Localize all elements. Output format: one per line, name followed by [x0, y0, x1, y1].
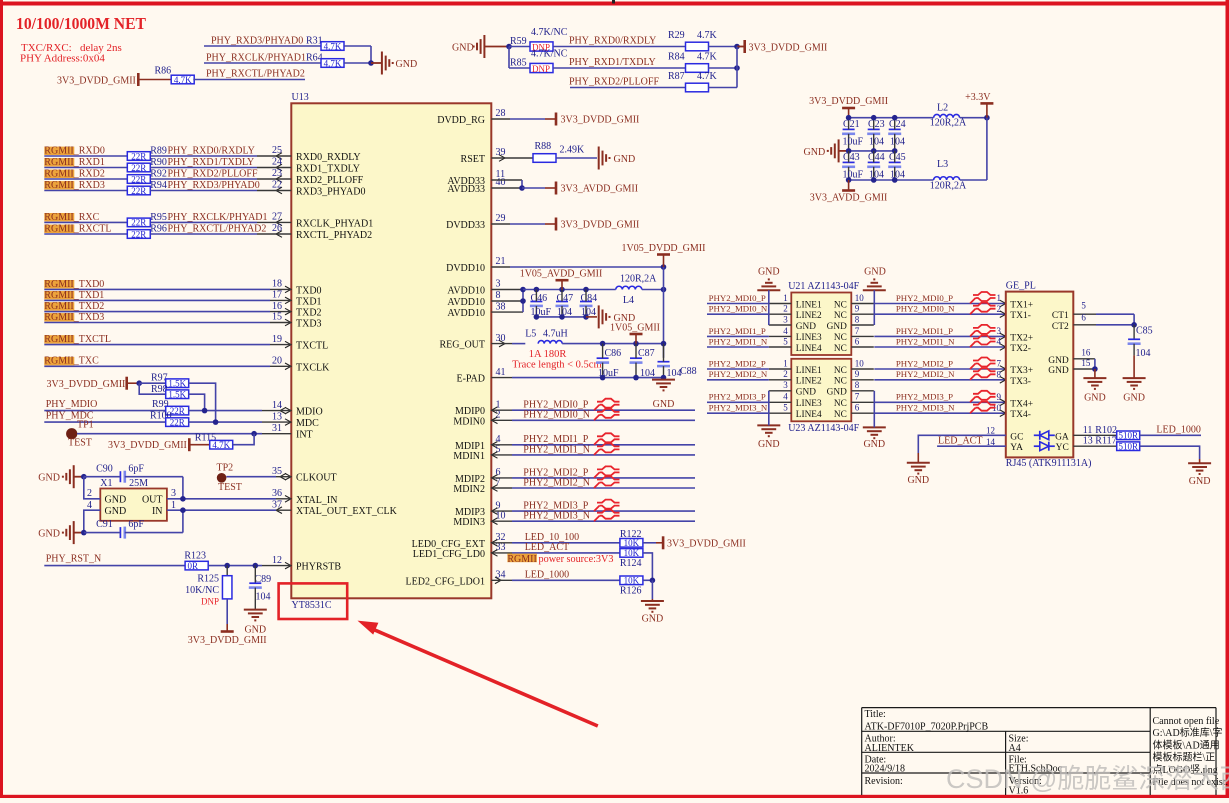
- svg-text:3V3_DVDD_GMII: 3V3_DVDD_GMII: [47, 379, 126, 390]
- svg-text:RGMII_TXC: RGMII_TXC: [44, 356, 99, 367]
- svg-text:5: 5: [1081, 301, 1086, 311]
- net PHY2_MDI0_P to RJ45: [874, 303, 1006, 305]
- svg-text:PHYRSTB: PHYRSTB: [296, 562, 341, 573]
- wire L3 to +3.3V: [960, 179, 987, 181]
- wire C91 to IN: [182, 510, 184, 532]
- svg-text:TP2: TP2: [217, 463, 234, 474]
- svg-text:104: 104: [890, 137, 905, 148]
- svg-text:RXD1_TXDLY: RXD1_TXDLY: [296, 164, 360, 175]
- svg-text:TXD0: TXD0: [296, 285, 322, 296]
- net PHY2_MDI3_N into transformer: [707, 412, 769, 414]
- svg-text:0R: 0R: [188, 561, 199, 571]
- svg-text:39: 39: [496, 147, 506, 158]
- svg-text:ATK-DF7010P_7020P.PrjPCB: ATK-DF7010P_7020P.PrjPCB: [865, 722, 989, 733]
- svg-text:21: 21: [496, 256, 506, 267]
- diff pair directive: [594, 477, 620, 489]
- net LED_ACT resistor R124: [491, 552, 512, 554]
- svg-text:2: 2: [997, 304, 1002, 314]
- svg-text:R59: R59: [510, 36, 527, 47]
- svg-text:7: 7: [997, 359, 1002, 369]
- svg-text:6pF: 6pF: [128, 519, 144, 530]
- diff pair directive: [594, 466, 620, 478]
- wire R64 to GND: [344, 62, 371, 64]
- svg-text:41: 41: [496, 367, 506, 378]
- op-amp U13 YT8531C body: [291, 103, 491, 598]
- svg-text:XTAL_OUT_EXT_CLK: XTAL_OUT_EXT_CLK: [296, 506, 398, 517]
- svg-text:power source:3V3: power source:3V3: [539, 554, 614, 565]
- svg-text:GND: GND: [452, 43, 474, 54]
- svg-text:9: 9: [855, 304, 860, 314]
- svg-text:2.49K: 2.49K: [560, 145, 586, 156]
- svg-text:10: 10: [496, 510, 506, 521]
- svg-text:REG_OUT: REG_OUT: [439, 340, 485, 351]
- svg-text:TXD1: TXD1: [296, 296, 322, 307]
- power flag +3.3V: [980, 102, 993, 105]
- svg-text:NC: NC: [834, 300, 847, 310]
- svg-text:AVDD10: AVDD10: [447, 308, 485, 319]
- net PHY2_MDI0_P into transformer: [707, 303, 769, 305]
- svg-text:4.7K/NC: 4.7K/NC: [531, 27, 568, 38]
- svg-text:22R: 22R: [131, 163, 146, 173]
- svg-text:GND: GND: [907, 475, 929, 486]
- svg-text:PHY_RXD1/TXDLY: PHY_RXD1/TXDLY: [168, 157, 255, 168]
- svg-text:PHY_RXD3/PHYAD0: PHY_RXD3/PHYAD0: [168, 180, 260, 191]
- net PHY2_MDI0_N into transformer: [707, 313, 769, 315]
- svg-text:PHY_RXD1/TXDLY: PHY_RXD1/TXDLY: [569, 57, 656, 68]
- svg-text:4: 4: [783, 392, 788, 402]
- svg-text:PHY2_MDI2_N: PHY2_MDI2_N: [523, 477, 590, 488]
- svg-text:PHY2_MDI3_P: PHY2_MDI3_P: [709, 392, 766, 402]
- svg-text:U21 AZ1143-04F: U21 AZ1143-04F: [788, 281, 859, 292]
- svg-text:CSDN @脆脆鲨深潜大西洋: CSDN @脆脆鲨深潜大西洋: [946, 764, 1229, 794]
- svg-text:3V3_DVDD_GMII: 3V3_DVDD_GMII: [749, 43, 828, 54]
- svg-text:104: 104: [1136, 348, 1151, 359]
- ground RJ45 shield: [1094, 369, 1096, 378]
- net PHY2_MDI1_P to RJ45: [874, 335, 1006, 337]
- wire caps bottom rail: [536, 316, 586, 318]
- crystal X1 body: [100, 489, 167, 521]
- resistor R95 net PHY_RXCLK/PHYAD1: [44, 213, 74, 221]
- net PHY2_MDI3_N from U13: [491, 520, 512, 522]
- svg-text:R86: R86: [155, 66, 172, 77]
- svg-text:TXCTL: TXCTL: [296, 341, 328, 352]
- svg-text:23: 23: [272, 168, 282, 179]
- svg-text:120R,2A: 120R,2A: [620, 274, 657, 285]
- svg-text:R92: R92: [150, 168, 167, 179]
- net PHY2_MDI1_N to RJ45: [874, 346, 1006, 348]
- svg-text:4.7K: 4.7K: [697, 52, 718, 63]
- svg-text:MDIN0: MDIN0: [453, 416, 485, 427]
- svg-text:6pF: 6pF: [128, 463, 144, 474]
- svg-text:体模板\AD通用: 体模板\AD通用: [1153, 738, 1220, 751]
- svg-text:4.7uH: 4.7uH: [543, 329, 568, 340]
- svg-text:14: 14: [272, 400, 282, 411]
- svg-text:3V3_AVDD_GMII: 3V3_AVDD_GMII: [561, 184, 639, 195]
- wire DVDD_RG pin28 to 3V3 flag: [491, 118, 510, 120]
- wire L5 to bus: [562, 343, 663, 345]
- svg-text:C91: C91: [96, 519, 113, 530]
- svg-text:LED_1000: LED_1000: [1156, 424, 1200, 435]
- diff pair directive: [970, 358, 996, 370]
- diff pair directive: [970, 292, 996, 304]
- svg-text:GND: GND: [758, 267, 780, 278]
- svg-text:7: 7: [855, 326, 860, 336]
- svg-text:4.7K: 4.7K: [324, 41, 342, 51]
- svg-text:PHY2_MDI3_N: PHY2_MDI3_N: [896, 403, 955, 413]
- capacitor C88: [658, 361, 670, 363]
- net PHY_RXD2/PLLOFF: [570, 87, 686, 89]
- diff pair directive: [594, 409, 620, 421]
- svg-text:LINE1: LINE1: [796, 366, 822, 376]
- svg-text:GND: GND: [827, 322, 847, 332]
- svg-text:10K: 10K: [624, 548, 640, 558]
- svg-text:MDIN3: MDIN3: [453, 517, 485, 528]
- wire R87 to bus: [708, 87, 737, 89]
- wire REG_OUT pin30: [491, 343, 512, 345]
- resistor R89 net PHY_RXD0/RXDLY: [44, 147, 74, 155]
- svg-text:GND: GND: [614, 154, 636, 165]
- wire C90 to OUT: [182, 477, 184, 499]
- svg-text:DVDD33: DVDD33: [446, 220, 485, 231]
- svg-text:LINE1: LINE1: [796, 300, 822, 310]
- wire 3V3 rail top: [849, 117, 934, 119]
- svg-text:3V3_DVDD_GMII: 3V3_DVDD_GMII: [57, 76, 136, 87]
- svg-text:18: 18: [272, 279, 282, 290]
- svg-text:PHY2_MDI3_N: PHY2_MDI3_N: [523, 511, 590, 522]
- svg-text:R64: R64: [306, 52, 323, 63]
- svg-text:19: 19: [272, 334, 282, 345]
- svg-text:4.7K: 4.7K: [697, 30, 718, 41]
- resistor R90 net PHY_RXD1/TXDLY: [44, 158, 74, 166]
- svg-text:25M: 25M: [129, 478, 148, 489]
- svg-text:DVDD10: DVDD10: [446, 263, 485, 274]
- svg-text:C86: C86: [605, 348, 622, 359]
- svg-text:1A 180R: 1A 180R: [529, 349, 567, 360]
- svg-text:LED2_CFG_LDO1: LED2_CFG_LDO1: [406, 576, 485, 587]
- svg-text:4.7K: 4.7K: [174, 75, 192, 85]
- svg-text:AVDD10: AVDD10: [447, 297, 485, 308]
- net PHY2_MDI2_N into transformer: [707, 379, 769, 381]
- svg-text:GND: GND: [758, 439, 780, 450]
- svg-text:10K/NC: 10K/NC: [185, 585, 219, 596]
- svg-text:34: 34: [496, 570, 506, 581]
- wire U23 pin3 to lower gnd: [768, 391, 770, 426]
- svg-text:PHY2_MDI2_P: PHY2_MDI2_P: [896, 358, 953, 368]
- svg-text:PHY2_MDI1_P: PHY2_MDI1_P: [896, 326, 953, 336]
- net PHY2_MDI1_P into transformer: [707, 335, 769, 337]
- svg-text:2: 2: [496, 410, 501, 421]
- svg-text:3: 3: [997, 326, 1002, 336]
- red annotation arrow: [358, 621, 379, 635]
- net PHY2_MDI0_N from U13: [491, 419, 512, 421]
- svg-text:1: 1: [783, 293, 788, 303]
- svg-text:3: 3: [783, 380, 788, 390]
- svg-text:15: 15: [1081, 358, 1091, 368]
- svg-text:CT1: CT1: [1052, 311, 1069, 321]
- wire R125 to 3V3 flag: [226, 599, 228, 624]
- svg-text:AVDD33: AVDD33: [447, 184, 485, 195]
- svg-text:9: 9: [997, 392, 1002, 402]
- svg-text:1.5K: 1.5K: [168, 379, 186, 389]
- svg-text:40: 40: [496, 177, 506, 188]
- ground caps rail: [599, 305, 610, 328]
- svg-text:4.7K: 4.7K: [697, 71, 718, 82]
- net PHY2_MDI0_P from U13: [491, 409, 512, 411]
- svg-text:GND: GND: [1084, 392, 1106, 403]
- svg-text:10uF: 10uF: [843, 137, 864, 148]
- wire U21 pin8 to upper gnd: [873, 290, 875, 325]
- svg-text:1V05_GMII: 1V05_GMII: [610, 323, 660, 334]
- svg-text:GND: GND: [396, 59, 418, 70]
- svg-text:GC: GC: [1010, 432, 1023, 442]
- svg-text:TX2-: TX2-: [1010, 344, 1031, 354]
- svg-text:37: 37: [272, 499, 282, 510]
- svg-text:TX3-: TX3-: [1010, 377, 1031, 387]
- svg-text:X1: X1: [100, 478, 112, 489]
- svg-text:Trace length < 0.5cm: Trace length < 0.5cm: [512, 359, 602, 370]
- svg-text:R94: R94: [150, 180, 167, 191]
- svg-text:C85: C85: [1136, 325, 1153, 336]
- svg-text:28: 28: [496, 108, 506, 119]
- svg-text:R95: R95: [150, 212, 167, 223]
- diff pair directive: [970, 325, 996, 337]
- net PHY2_MDI1_N into transformer: [707, 346, 769, 348]
- svg-text:L4: L4: [623, 295, 634, 306]
- svg-text:PHY_RXD2/PLLOFF: PHY_RXD2/PLLOFF: [168, 168, 258, 179]
- svg-text:Cannot open file: Cannot open file: [1153, 716, 1220, 727]
- svg-text:GND: GND: [244, 625, 266, 636]
- svg-text:5: 5: [783, 403, 788, 413]
- svg-text:20: 20: [272, 356, 282, 367]
- svg-text:GND: GND: [863, 439, 885, 450]
- svg-text:R87: R87: [668, 71, 685, 82]
- svg-text:104: 104: [256, 591, 271, 602]
- wire DVDD33 pin29 to 3V3 flag: [491, 223, 510, 225]
- svg-text:3: 3: [783, 314, 788, 324]
- net PHY2_MDI1_P from U13: [491, 444, 512, 446]
- svg-text:2: 2: [783, 369, 788, 379]
- svg-text:R117: R117: [1095, 436, 1116, 447]
- svg-text:4.7K: 4.7K: [324, 58, 342, 68]
- svg-text:TX4+: TX4+: [1010, 399, 1033, 409]
- diff pair directive: [594, 399, 620, 411]
- diff pair directive: [970, 402, 996, 414]
- svg-text:GND: GND: [1123, 392, 1145, 403]
- svg-text:模板标题栏\正: 模板标题栏\正: [1153, 751, 1216, 764]
- svg-text:29: 29: [496, 213, 506, 224]
- svg-text:22R: 22R: [131, 218, 146, 228]
- svg-text:LINE2: LINE2: [796, 377, 822, 387]
- svg-text:RGMII_RXD1: RGMII_RXD1: [44, 157, 105, 168]
- wire IN to XTAL_OUT: [167, 509, 276, 511]
- svg-text:10K: 10K: [624, 576, 640, 586]
- svg-text:1.5K: 1.5K: [168, 390, 186, 400]
- svg-text:30: 30: [496, 333, 506, 344]
- svg-text:PHY2_MDI1_N: PHY2_MDI1_N: [896, 336, 955, 346]
- svg-text:R126: R126: [620, 585, 642, 596]
- ground under C85: [1133, 355, 1135, 378]
- svg-text:C90: C90: [96, 463, 113, 474]
- svg-text:CT2: CT2: [1052, 322, 1069, 332]
- svg-text:TXD3: TXD3: [296, 319, 322, 330]
- wire bottom rail: [849, 179, 934, 181]
- svg-text:MDIO: MDIO: [296, 407, 323, 418]
- junction: [506, 44, 512, 50]
- svg-text:RGMII_RXC: RGMII_RXC: [44, 212, 99, 223]
- net PHY2_MDI0_N to RJ45: [874, 313, 1006, 315]
- svg-text:R124: R124: [620, 558, 642, 569]
- svg-text:2024/9/18: 2024/9/18: [865, 764, 906, 775]
- svg-text:RGMII_RXD3: RGMII_RXD3: [44, 180, 105, 191]
- svg-text:RXD3_PHYAD0: RXD3_PHYAD0: [296, 187, 365, 198]
- svg-text:GND: GND: [105, 506, 127, 517]
- svg-text:6: 6: [855, 403, 860, 413]
- diff pair directive: [970, 336, 996, 348]
- svg-text:10uF: 10uF: [843, 169, 864, 180]
- svg-text:DNP: DNP: [532, 64, 550, 74]
- svg-text:LINE4: LINE4: [796, 410, 822, 420]
- svg-text:120R,2A: 120R,2A: [930, 180, 967, 191]
- svg-text:2: 2: [87, 488, 92, 499]
- svg-text:PHY2_MDI0_N: PHY2_MDI0_N: [896, 304, 955, 314]
- wire R117 to ground: [1139, 446, 1200, 459]
- svg-text:R96: R96: [150, 223, 167, 234]
- svg-text:6: 6: [855, 336, 860, 346]
- svg-text:PHY2_MDI2_N: PHY2_MDI2_N: [896, 369, 955, 379]
- svg-text:RXD0_RXDLY: RXD0_RXDLY: [296, 152, 361, 163]
- svg-text:PHY2_MDI3_N: PHY2_MDI3_N: [709, 403, 768, 413]
- svg-text:AVDD10: AVDD10: [447, 286, 485, 297]
- svg-text:RGMII_TXD0: RGMII_TXD0: [44, 279, 104, 290]
- svg-text:YC: YC: [1056, 443, 1069, 453]
- net PHY2_MDI2_P from U13: [491, 477, 512, 479]
- svg-text:GND: GND: [1189, 476, 1211, 487]
- svg-text:RGMII_TXD1: RGMII_TXD1: [44, 290, 104, 301]
- svg-text:35: 35: [272, 466, 282, 477]
- resistor R98: [139, 383, 166, 394]
- svg-text:INT: INT: [296, 430, 313, 441]
- svg-text:RGMII_RXD2: RGMII_RXD2: [44, 168, 105, 179]
- diff pair directive: [970, 368, 996, 380]
- svg-text:Revision:: Revision:: [865, 776, 903, 787]
- svg-text:PHY2_MDI0_P: PHY2_MDI0_P: [709, 293, 766, 303]
- resistor R97: [139, 382, 166, 384]
- svg-text:12: 12: [986, 426, 995, 436]
- wire R29 to 3V3: [708, 46, 737, 48]
- svg-text:GND: GND: [864, 267, 886, 278]
- transformer U21 body: [791, 293, 851, 356]
- svg-text:22: 22: [272, 180, 282, 191]
- svg-text:PHY Address:0x04: PHY Address:0x04: [20, 53, 105, 65]
- svg-text:YT8531C: YT8531C: [292, 600, 332, 611]
- net PHY2_MDI2_N to RJ45: [874, 379, 1006, 381]
- svg-text:LED1_CFG_LD0: LED1_CFG_LD0: [413, 549, 485, 560]
- wire GND pin2: [84, 477, 101, 499]
- svg-text:5: 5: [496, 444, 501, 455]
- svg-text:4: 4: [87, 500, 92, 511]
- junction: [734, 65, 740, 71]
- net RGMII_TXD3: [44, 313, 74, 321]
- diff pair directive: [594, 433, 620, 445]
- svg-text:A4: A4: [1009, 743, 1021, 754]
- svg-text:R102: R102: [1095, 425, 1117, 436]
- svg-text:3V3_DVDD_GMII: 3V3_DVDD_GMII: [667, 539, 746, 550]
- svg-text:22R: 22R: [131, 186, 146, 196]
- led diode GC-GA: [1034, 434, 1040, 436]
- svg-text:6: 6: [1081, 312, 1086, 322]
- net RGMII_TXC: [44, 357, 74, 365]
- svg-text:10K: 10K: [624, 538, 640, 548]
- wire DVDD10 pin21: [491, 266, 510, 268]
- svg-text:YA: YA: [1010, 443, 1023, 453]
- svg-text:DNP: DNP: [201, 596, 219, 606]
- ground under C89: [244, 610, 267, 621]
- wire OUT to XTAL_IN: [167, 498, 276, 500]
- diff pair directive: [594, 510, 620, 522]
- svg-text:XTAL_IN: XTAL_IN: [296, 495, 337, 506]
- wire U23 pin8 to lower gnd: [873, 391, 875, 428]
- svg-text:U23 AZ1143-04F: U23 AZ1143-04F: [788, 423, 859, 434]
- net PHY_RXD0/RXDLY: [553, 46, 686, 48]
- svg-text:GND: GND: [1048, 366, 1069, 376]
- svg-text:31: 31: [272, 423, 282, 434]
- svg-text:TEST: TEST: [218, 482, 242, 493]
- svg-text:TX4-: TX4-: [1010, 410, 1031, 420]
- svg-text:8: 8: [855, 314, 860, 324]
- wire AVDD10 pins 3 8 38: [491, 289, 523, 291]
- junctions top rail: [846, 115, 852, 121]
- svg-text:MDIN1: MDIN1: [453, 451, 485, 462]
- svg-text:TP1: TP1: [77, 419, 94, 430]
- net RGMII_TXD0: [44, 280, 74, 288]
- net PHY2_MDI2_N from U13: [491, 487, 512, 489]
- svg-text:C87: C87: [638, 348, 655, 359]
- ground below U23 right: [863, 427, 886, 438]
- svg-text:L5: L5: [525, 329, 536, 340]
- resistor R88 on RSET: [491, 157, 533, 159]
- svg-text:10/100/1000M NET: 10/100/1000M NET: [16, 14, 147, 33]
- net LED_1000 resistor R126: [491, 579, 512, 581]
- net PHY2_MDI1_N from U13: [491, 454, 512, 456]
- svg-text:PHY2_MDI0_N: PHY2_MDI0_N: [709, 304, 768, 314]
- svg-text:LINE2: LINE2: [796, 311, 822, 321]
- svg-text:4.7K/NC: 4.7K/NC: [531, 49, 568, 60]
- net PHY2_MDI2_P into transformer: [707, 368, 769, 370]
- net PHY_RXD3/PHYAD0: [204, 45, 321, 47]
- svg-text:PHY_RXD0/RXDLY: PHY_RXD0/RXDLY: [569, 36, 656, 47]
- svg-text:RSET: RSET: [461, 154, 485, 165]
- svg-text:PHY2_MDI1_N: PHY2_MDI1_N: [523, 444, 590, 455]
- wire vertical 3V3 bus: [736, 47, 738, 88]
- svg-text:27: 27: [272, 212, 282, 223]
- net RGMII_TXD2: [44, 302, 74, 310]
- net PHY2_MDI2_P to RJ45: [874, 368, 1006, 370]
- net PHY2_MDI3_P to RJ45: [874, 401, 1006, 403]
- red highlight box around YT8531C: [279, 583, 348, 619]
- note RGMII power source: [507, 554, 537, 563]
- svg-text:GND: GND: [804, 147, 826, 158]
- svg-text:4: 4: [783, 326, 788, 336]
- power flag 3V3_AVDD_GMII: [555, 182, 558, 195]
- svg-text:TXCLK: TXCLK: [296, 362, 330, 373]
- svg-text:1: 1: [997, 293, 1002, 303]
- svg-text:PHY_RXCLK/PHYAD1: PHY_RXCLK/PHYAD1: [206, 52, 306, 63]
- svg-text:PHY2_MDI1_N: PHY2_MDI1_N: [709, 336, 768, 346]
- svg-text:NC: NC: [834, 366, 847, 376]
- svg-text:22R: 22R: [170, 406, 185, 416]
- svg-text:ALIENTEK: ALIENTEK: [865, 743, 915, 754]
- wire 1V05 vertical bus: [663, 267, 665, 358]
